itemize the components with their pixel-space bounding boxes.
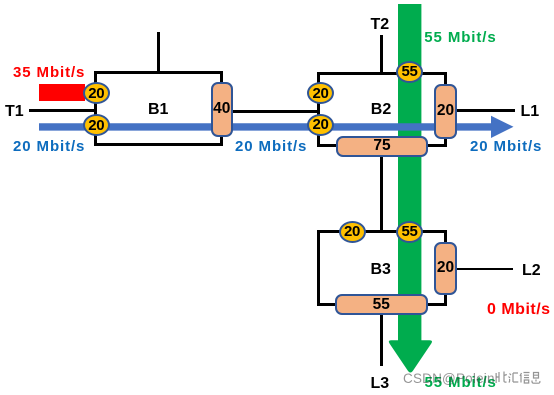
bridge B1: [94, 71, 223, 146]
label 20 Mbit/s middle: [235, 139, 307, 154]
wire B2 port 20 to L1: [455, 109, 515, 112]
B3 port 20 (right): [434, 242, 457, 295]
wire T2 stub to B2: [380, 35, 383, 73]
B2 port 20 (upper left): [307, 82, 334, 104]
red blocked-stream bar 35 Mbit/s: [39, 84, 85, 101]
label 55 Mbit/s top: [424, 30, 496, 45]
B1 port 40 (right): [211, 82, 234, 137]
label 0 Mbit/s: [487, 302, 551, 318]
B2 port 20 (lower left): [307, 114, 334, 136]
node L1: [521, 104, 540, 120]
label 20 Mbit/s right: [470, 139, 542, 154]
wire T1 to B1: [29, 109, 96, 112]
B1 port 20 (lower left): [83, 114, 110, 136]
B2 port 75 (bottom): [336, 136, 428, 157]
node T1: [5, 104, 24, 120]
B3 port 55 (bottom): [335, 294, 429, 315]
bridge label B3: [371, 262, 391, 278]
label 35 Mbit/s: [13, 65, 85, 80]
bridge label B2: [371, 102, 391, 118]
node T2: [371, 17, 390, 33]
wire B3 to L3: [380, 305, 383, 366]
watermark: [403, 372, 498, 386]
wire B2 to B3: [380, 146, 383, 232]
label 20 Mbit/s left: [13, 139, 85, 154]
B3 port 20 (top left): [339, 221, 366, 243]
node L2: [522, 263, 541, 279]
node L3: [371, 376, 390, 392]
wire B3 port 20 to L2: [455, 268, 513, 270]
B2 port 55 (top): [396, 61, 423, 83]
B2 port 20 (right): [434, 84, 457, 139]
bridge B2: [317, 72, 447, 148]
wire B1 port 40 to B2: [222, 110, 318, 113]
B3 port 55 (top): [396, 221, 423, 243]
bridge B3: [317, 230, 447, 306]
B1 port 20 (upper left): [83, 82, 110, 104]
label 55 Mbit/s bottom: [425, 375, 497, 390]
wire stub above B1: [157, 32, 160, 73]
bridge label B1: [148, 102, 168, 118]
